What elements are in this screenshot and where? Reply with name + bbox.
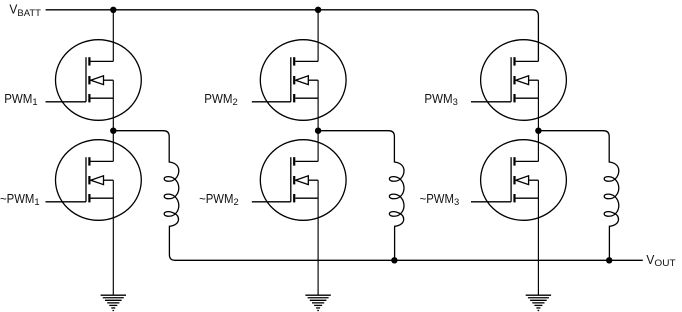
svg-text:~PWM3: ~PWM3 xyxy=(420,191,460,207)
transistor Q1L body lead xyxy=(104,179,114,181)
transistor Q1H drain lead xyxy=(91,60,114,62)
transistor Q1H gate bar xyxy=(85,57,87,102)
wire phase node 1 to Q1L drain xyxy=(112,131,114,162)
transistor Q1L N-MOSFET body (circle) xyxy=(56,140,142,221)
ground symbol 1 xyxy=(101,294,126,296)
transistor Q1H body lead xyxy=(104,79,114,81)
transistor Q2L N-MOSFET body (circle) xyxy=(260,140,346,221)
transistor Q1L drain channel stub xyxy=(88,157,90,165)
junction dot L3 / VOUT bus xyxy=(606,257,612,263)
transistor Q3L source channel stub xyxy=(513,194,515,202)
transistor Q3H source channel stub xyxy=(513,94,515,102)
net VBATT: top power rail wire with corner down to Q3 drain xyxy=(46,10,539,62)
svg-text:~PWM2: ~PWM2 xyxy=(199,191,239,207)
transistor Q3L N-MOSFET body (circle) xyxy=(481,140,567,221)
wire VBATT rail to Q2H drain xyxy=(317,10,319,62)
wire Q2L source to ground xyxy=(317,180,319,295)
transistor Q3H N-MOSFET body (circle) xyxy=(481,40,567,121)
net VOUT: bottom bus wire xyxy=(175,259,643,261)
transistor Q2H source lead xyxy=(295,97,318,99)
transistor Q3L source lead xyxy=(516,197,539,199)
wire ~PWM2 gate lead xyxy=(252,201,291,203)
transistor Q1H source channel stub xyxy=(88,94,90,102)
transistor Q3L body diode arrow xyxy=(516,176,529,185)
junction dot phase node 1 xyxy=(110,128,116,134)
transistor Q2L body channel stub xyxy=(293,176,295,184)
transistor Q1L source lead xyxy=(91,197,114,199)
transistor Q3L body channel stub xyxy=(513,176,515,184)
transistor Q2L body lead xyxy=(308,179,318,181)
wire Q3L source to ground xyxy=(537,180,539,295)
transistor Q2H body diode arrow xyxy=(296,76,309,85)
transistor Q1H drain channel stub xyxy=(88,57,90,65)
junction dot L2 / VOUT bus xyxy=(391,257,397,263)
svg-text:VOUT: VOUT xyxy=(646,252,675,268)
junction dot phase node 2 xyxy=(315,128,321,134)
transistor Q3H drain channel stub xyxy=(513,57,515,65)
transistor Q3L gate bar xyxy=(510,157,512,202)
junction dot VBATT / Q1 drain xyxy=(110,7,116,13)
transistor Q1H source lead xyxy=(91,97,114,99)
transistor Q2L source channel stub xyxy=(293,194,295,202)
svg-text:PWM3: PWM3 xyxy=(424,91,457,107)
wire PWM1 gate lead xyxy=(46,101,87,103)
wire Q1H source to phase node 1 xyxy=(112,80,114,131)
inductor L1 xyxy=(164,137,179,261)
transistor Q3L drain lead xyxy=(516,160,539,162)
transistor Q3H body diode arrow xyxy=(516,76,529,85)
transistor Q1L body channel stub xyxy=(88,176,90,184)
transistor Q1L drain lead xyxy=(91,160,114,162)
transistor Q2H drain lead xyxy=(295,60,318,62)
transistor Q3L drain channel stub xyxy=(513,157,515,165)
transistor Q2H drain channel stub xyxy=(293,57,295,65)
wire PWM2 gate lead xyxy=(252,101,291,103)
transistor Q3L body lead xyxy=(529,179,539,181)
transistor Q2L source lead xyxy=(295,197,318,199)
wire ~PWM3 gate lead xyxy=(471,201,511,203)
inductor L3 xyxy=(604,137,619,261)
transistor Q1H N-MOSFET body (circle) xyxy=(56,40,142,121)
wire phase node 2 to inductor L2 xyxy=(318,131,394,137)
transistor Q2H body lead xyxy=(308,79,318,81)
transistor Q2H body channel stub xyxy=(293,76,295,84)
svg-text:VBATT: VBATT xyxy=(9,2,41,18)
transistor Q2L drain channel stub xyxy=(293,157,295,165)
transistor Q2L gate bar xyxy=(290,157,292,202)
junction dot phase node 3 xyxy=(535,128,541,134)
transistor Q2H gate bar xyxy=(290,57,292,102)
junction dot VBATT / Q2 drain xyxy=(315,7,321,13)
wire phase node 3 to Q3L drain xyxy=(537,131,539,162)
wire Q1L source to ground xyxy=(112,180,114,295)
transistor Q3H body channel stub xyxy=(513,76,515,84)
transistor Q2H source channel stub xyxy=(293,94,295,102)
transistor Q2L body diode arrow xyxy=(296,176,309,185)
svg-text:PWM2: PWM2 xyxy=(204,91,237,107)
transistor Q1H body diode arrow xyxy=(91,76,104,85)
transistor Q3H body lead xyxy=(529,79,539,81)
svg-text:PWM1: PWM1 xyxy=(4,91,37,107)
ground symbol 2 xyxy=(305,294,330,296)
wire Q2H source to phase node 2 xyxy=(317,80,319,131)
wire phase node 3 to inductor L3 xyxy=(538,131,609,137)
wire phase node 2 to Q2L drain xyxy=(317,131,319,162)
inductor L2 xyxy=(389,137,404,261)
transistor Q3H source lead xyxy=(516,97,539,99)
ground symbol 3 xyxy=(526,294,551,296)
transistor Q1H body channel stub xyxy=(88,76,90,84)
transistor Q1L gate bar xyxy=(85,157,87,202)
transistor Q3H drain lead xyxy=(516,60,539,62)
wire ~PWM1 gate lead xyxy=(46,201,87,203)
transistor Q2H N-MOSFET body (circle) xyxy=(260,40,346,121)
transistor Q2L drain lead xyxy=(295,160,318,162)
wire PWM3 gate lead xyxy=(471,101,511,103)
transistor Q3H gate bar xyxy=(510,57,512,102)
transistor Q1L body diode arrow xyxy=(91,176,104,185)
transistor Q1L source channel stub xyxy=(88,194,90,202)
wire phase node 1 to inductor L1 xyxy=(113,131,169,137)
wire VBATT rail to Q1H drain xyxy=(112,10,114,62)
svg-text:~PWM1: ~PWM1 xyxy=(0,191,40,207)
wire Q3H source to phase node 3 xyxy=(537,80,539,131)
